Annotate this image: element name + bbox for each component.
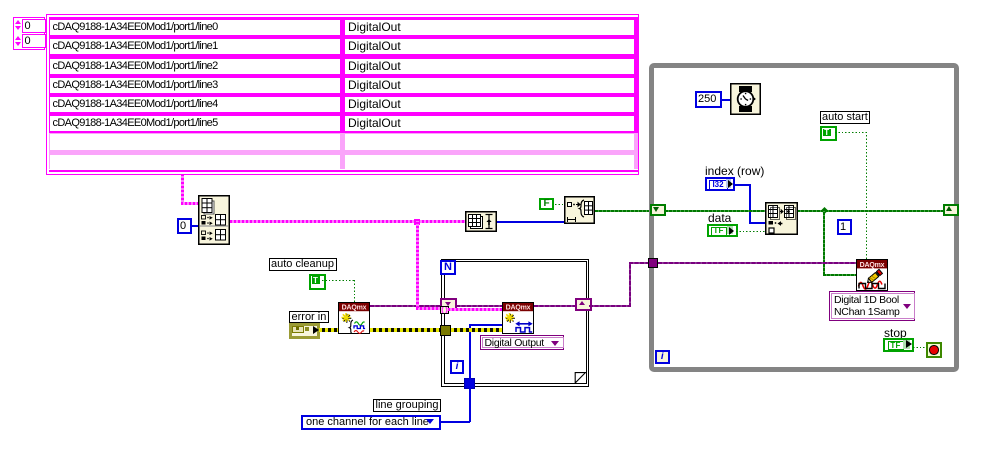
shift register right (up arrow) (575, 298, 592, 311)
numeric constant 250 (695, 91, 722, 108)
row1 col1 cell (50, 39, 340, 54)
shift register left green (down arrow) (650, 204, 666, 216)
for loop folded corner (574, 372, 586, 384)
node: Replace Array Subset (765, 202, 798, 235)
ring: Digital 1D Bool NChan 1Samp (829, 291, 915, 321)
wire: 250 to wait (721, 99, 731, 101)
shift register right green (up arrow) (943, 204, 959, 216)
wire: F to initialize array (green dotted) (555, 204, 565, 205)
row5 col2 cell (345, 116, 634, 131)
table bottom inner bright line (49, 170, 638, 171)
TF control data (707, 224, 738, 237)
wire: green branch down to DAQmx write (823, 210, 825, 275)
wire: magenta branch down to for loop (416, 221, 419, 308)
node: Initialize Array (564, 196, 595, 224)
boolean constant F (539, 198, 554, 210)
I32 control (705, 177, 735, 191)
wire: stop green dotted (913, 347, 926, 348)
purple tunnel on while loop left (648, 258, 658, 268)
wire: line grouping blue up through loop (469, 324, 471, 422)
boolean constant T (auto start) (820, 126, 837, 141)
DAQmx create virtual channel U1 (338, 302, 370, 334)
row5 col1 cell (50, 116, 340, 131)
green junction diamond (821, 206, 828, 213)
label error in (289, 311, 329, 323)
wire: DAQmx U1 task out (purple) (370, 305, 440, 307)
label auto start (820, 111, 871, 124)
wire: index(row) blue (734, 184, 750, 186)
array index display (2D index control) (13, 17, 45, 50)
row4 col1 cell (50, 97, 340, 112)
i iteration terminal (for loop) (450, 360, 464, 374)
ring constant Digital Output (480, 335, 564, 350)
label stop (884, 327, 907, 339)
wire: purple into DAQmx write (658, 262, 857, 264)
label data (708, 212, 731, 224)
auto-index tunnel [] (440, 306, 449, 315)
TF control stop (883, 338, 914, 352)
row4 col2 cell (345, 97, 634, 112)
row7 col2 cell (empty dim) (345, 155, 634, 169)
for loop border inner (444, 261, 587, 384)
table dim pink fill (49, 133, 638, 169)
junction on magenta wire (414, 219, 420, 225)
label index (row) (705, 165, 764, 177)
wire: error U1 to for loop (370, 328, 441, 332)
wire: initialize array out to while loop (green array) (595, 210, 650, 212)
index cell 1 (22, 34, 46, 48)
index cell 0 (22, 19, 46, 33)
svg-text:DAQmx: DAQmx (506, 305, 531, 312)
wire: error tunnel to DAQmx U2 (451, 328, 502, 332)
wire: purple SR to DAQmx U2 (456, 305, 502, 307)
wire: magenta into [] tunnel (416, 307, 441, 310)
wire: 0 to node (190, 225, 200, 227)
wire: auto cleanup green dotted (322, 280, 354, 281)
table bright magenta fill (49, 17, 638, 133)
2D string array table: outer frame (46, 14, 639, 175)
loop condition terminal (stop sign) (926, 342, 942, 358)
label auto cleanup (269, 258, 337, 271)
error in cluster constant (289, 323, 320, 339)
wire: node output long magenta (230, 220, 465, 223)
numeric constant 1 (837, 219, 852, 235)
wire: magenta tunnel to DAQmx U2 (448, 308, 502, 311)
wire: array size to initialize array (blue) (497, 221, 564, 223)
wire: long green array across while loop (665, 210, 765, 212)
i iteration terminal (while loop) (655, 350, 670, 365)
row6 col1 cell (empty dim) (50, 134, 340, 150)
index spinner arrows (15, 20, 21, 24)
DAQmx create virtual channel U2 (in loop) (502, 302, 534, 334)
error tunnel (olive square) (440, 325, 451, 336)
node: Array Size (465, 211, 497, 232)
svg-text:DAQmx: DAQmx (860, 261, 885, 268)
boolean constant T (auto cleanup) (309, 274, 326, 290)
wire: U2 task to right SR (purple) (534, 305, 575, 307)
while loop border (gray) (649, 63, 959, 372)
numeric constant 0 (177, 218, 192, 234)
N count terminal (440, 260, 456, 275)
blue tunnel on for loop bottom (464, 378, 475, 389)
DAQmx write U3 (856, 259, 888, 291)
row1 col2 cell (345, 39, 634, 54)
wire: purple for-loop SR out to while loop (589, 305, 630, 307)
wire: into delete-from-array node (181, 202, 200, 205)
row6 col2 cell (empty dim) (345, 134, 634, 150)
for loop border outer (441, 259, 589, 387)
label line grouping (373, 399, 441, 412)
row0 col2 cell (345, 20, 634, 35)
ring control: one channel for each line (301, 415, 441, 430)
svg-text:DAQmx: DAQmx (342, 305, 367, 312)
row2 col1 cell (50, 59, 340, 74)
node: Delete From Array (198, 195, 230, 245)
row7 col1 cell (empty dim) (50, 155, 340, 169)
row0 col1 cell (50, 20, 340, 35)
wire: data green dotted (736, 231, 765, 232)
wire: error in to DAQmx create channel (319, 328, 338, 332)
wait (ms) timer (730, 83, 761, 115)
shift register left (down arrow) (440, 298, 457, 311)
row3 col2 cell (345, 78, 634, 93)
row3 col1 cell (50, 78, 340, 93)
wire: table output down (181, 175, 184, 204)
row2 col2 cell (345, 59, 634, 74)
wire: auto start green dotted (835, 132, 866, 133)
